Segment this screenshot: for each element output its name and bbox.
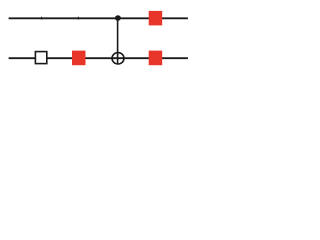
node dot B on q0 (77, 16, 80, 19)
node dot A on q0 (40, 16, 43, 19)
gate G4 red square on q1 (149, 51, 163, 66)
wire q0 (9, 17, 188, 19)
wire vertical control line (117, 18, 119, 64)
gate G1 open square on q1 (35, 52, 46, 64)
CNOT target circle on q1 (112, 53, 124, 64)
gate G3 red square on q0 (149, 11, 163, 26)
wire q1 (9, 57, 188, 59)
CNOT control dot on q0 (115, 15, 121, 21)
gate G2 red square on q1 (72, 51, 86, 66)
